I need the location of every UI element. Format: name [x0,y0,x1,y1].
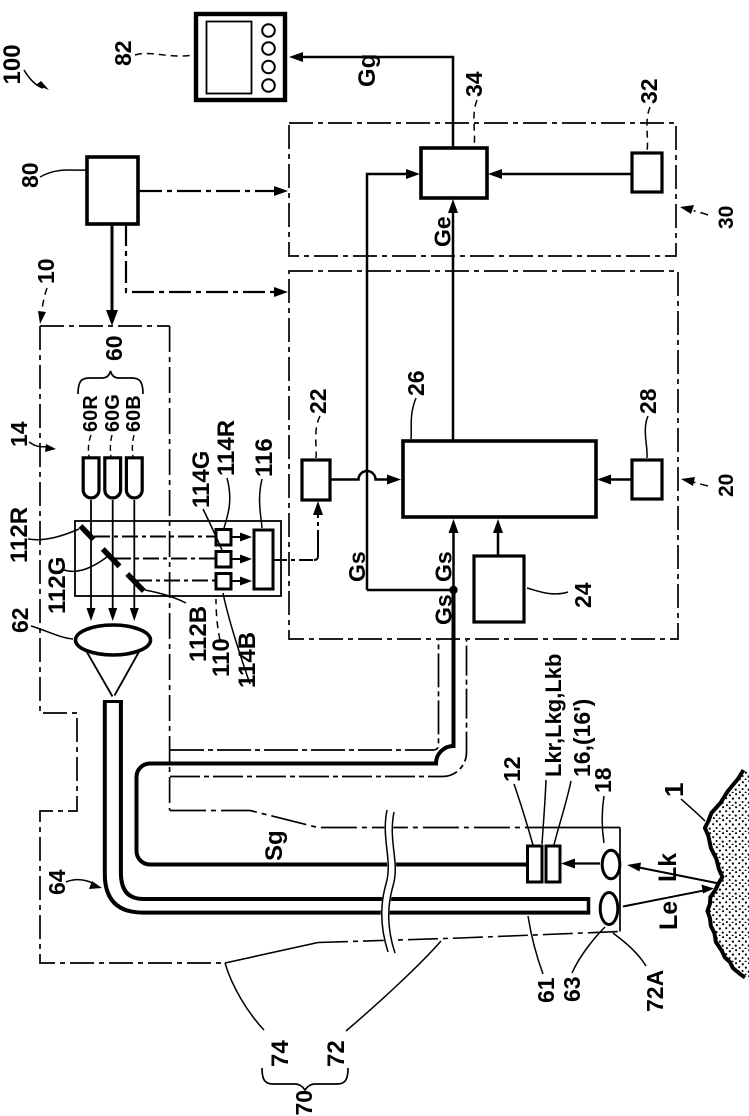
svg-text:Lk: Lk [654,853,682,882]
box 24 [474,556,524,622]
wire 80 to box30 [138,186,288,196]
svg-text:114R: 114R [213,420,240,476]
svg-text:112G: 112G [44,557,71,614]
arrow 114R to 116 [231,533,252,542]
label 100 [0,44,49,90]
photodiode 114B [216,574,231,590]
svg-text:70: 70 [291,1090,317,1116]
wire Gs junction to 26 [449,519,459,590]
svg-text:18: 18 [590,767,616,793]
wire 22 to 26 with hop [330,471,401,485]
label 110 [208,599,235,677]
label 64 [44,869,102,895]
box 80 [87,157,138,224]
svg-text:74: 74 [267,1040,294,1067]
arrow 114G to 116 [231,555,252,564]
photodiode 114R [216,530,231,546]
beam line to 114B [136,580,216,582]
svg-text:60G: 60G [102,394,124,432]
beam from 60R [87,500,96,621]
label 61 [528,916,559,1003]
svg-text:60B: 60B [123,395,145,432]
cord boundary lower thin y776 [170,640,467,777]
label 112B [145,590,212,662]
svg-text:1: 1 [659,783,689,797]
svg-text:60: 60 [101,335,127,361]
cord boundary upper thin y750 [170,640,439,750]
beam from 60B [130,500,139,621]
label 10 [33,258,59,324]
box 26 [403,441,596,517]
junction node [449,586,457,594]
svg-text:100: 100 [0,44,26,84]
box 30 dash-dot [289,123,676,256]
label 28 [635,388,661,458]
wire 24 to 26 [493,519,503,556]
label 16,(16') [554,699,595,845]
box 14 right edge dash-dot [169,326,171,811]
fiber 64 horizontal bottom wall [143,911,588,915]
box 28 [632,460,662,499]
tissue 1 boundary [705,770,745,978]
label 12 [499,756,533,845]
label 34 [461,71,487,146]
svg-text:82: 82 [110,40,136,66]
svg-text:116: 116 [251,438,278,477]
svg-text:Sg: Sg [261,830,288,861]
wire Ge : box26 to box34 [448,199,458,441]
wire Sg thick cable [137,590,528,865]
svg-text:34: 34 [461,71,487,97]
svg-text:62: 62 [7,607,33,633]
mirror 112G [103,549,120,566]
label 1 [659,783,705,821]
svg-text:110: 110 [208,638,235,677]
mirror 112B [127,574,144,591]
fiber 64 top cap [103,700,123,703]
monitor 82 [196,14,285,100]
label 80 [17,162,86,188]
svg-text:Gg: Gg [354,54,381,87]
laser diode 60G [105,458,121,498]
svg-text:72A: 72A [642,970,668,1012]
svg-text:10: 10 [33,258,59,284]
label 116 [251,438,278,528]
beam line to 114R [94,536,216,538]
lens 62 [76,625,151,655]
label 112R [6,507,79,563]
fiber 64 horizontal top wall [143,897,588,901]
wire 80 to box20 [126,224,288,297]
label 30 [680,205,738,229]
wire 28 to 26 [597,475,632,485]
arrow Lk [627,863,719,884]
label 114B [223,593,261,688]
box 22 [302,460,330,500]
sensor cover 16 [546,846,560,882]
svg-text:16,(16'): 16,(16') [569,699,595,777]
insertion bottom boundary [225,943,318,964]
wire Gg : box34 to monitor [289,52,453,148]
wire Gs vertical to box34 [367,169,420,590]
label 114G [188,451,222,550]
arrow Le [623,885,714,907]
label 60R [80,395,102,457]
box 34 [421,148,487,198]
fiber 64 vertical outer wall [105,701,143,913]
label 20 [681,474,738,497]
beam line to 114G [115,558,216,560]
svg-text:60R: 60R [80,395,102,432]
label Lkr,Lkg,Lkb [541,654,566,844]
wire 32 to 34 [488,169,632,179]
tissue 1 fill [705,770,749,978]
fiber 64 vertical inner wall [121,701,143,899]
sensor 12 [528,846,543,882]
lens 18 [602,850,620,878]
svg-text:28: 28 [635,388,661,414]
laser diode 60R [83,458,99,498]
label 62 [7,607,73,639]
label 60G [102,394,124,457]
label 114R [213,420,240,528]
label 63 [559,927,605,1002]
svg-text:61: 61 [533,977,559,1003]
svg-text:24: 24 [570,582,596,608]
break mark right curve [389,812,396,953]
label 60B [123,395,145,457]
label 112G [44,557,107,614]
box 10 outline dash-dot [40,325,170,327]
insertion top boundary taper [170,811,560,828]
label 14 [6,421,56,452]
leader 74 [225,963,264,1030]
break mark left curve [382,810,389,952]
svg-text:72: 72 [323,1040,350,1067]
brace 60 [78,371,143,394]
box 20 dash-dot [289,271,678,639]
label 82 [110,40,193,66]
mirror 112R [81,526,94,540]
leader 72 [346,941,441,1031]
svg-text:Gs: Gs [344,551,370,582]
distal top edge [560,827,620,829]
svg-text:32: 32 [636,78,662,104]
box 32 [632,153,662,192]
fiber 64 end cap [587,897,591,915]
svg-text:20: 20 [715,474,738,497]
wire junction horizontal [367,589,454,592]
svg-text:Ge: Ge [430,216,456,247]
label 72A [613,933,668,1012]
distal right edge [619,828,621,932]
svg-text:80: 80 [17,162,43,188]
svg-text:112R: 112R [6,507,33,563]
box 110 [75,521,281,596]
svg-text:12: 12 [499,756,525,782]
arrow 18 to sensor [561,859,600,869]
beam from 60G [108,500,117,621]
wire 80 to box10 (arrow down) [106,224,118,326]
svg-text:Lkr,Lkg,Lkb: Lkr,Lkg,Lkb [541,654,566,777]
arrow 114B to 116 [231,577,252,586]
svg-text:30: 30 [715,206,738,229]
svg-text:114G: 114G [188,451,215,508]
wire 116 to 22 [273,501,323,560]
break mark white band [385,812,392,951]
label 18 [590,767,616,843]
svg-text:Gs: Gs [431,551,457,582]
laser diode 60B [126,458,142,498]
svg-text:22: 22 [305,388,331,414]
photodiode 114G [216,552,231,568]
svg-text:63: 63 [559,976,585,1002]
label 32 [636,78,662,151]
svg-text:114B: 114B [234,632,261,688]
brace 70 [262,1068,348,1090]
cone left side [86,651,113,697]
svg-text:26: 26 [403,370,429,396]
label 26 [403,370,429,439]
label 22 [305,388,331,458]
label 24 [527,582,596,608]
cone right side [115,649,141,696]
svg-text:14: 14 [6,421,32,447]
box 116 [254,530,273,589]
svg-text:Le: Le [655,901,683,930]
lens 63 [600,893,618,925]
